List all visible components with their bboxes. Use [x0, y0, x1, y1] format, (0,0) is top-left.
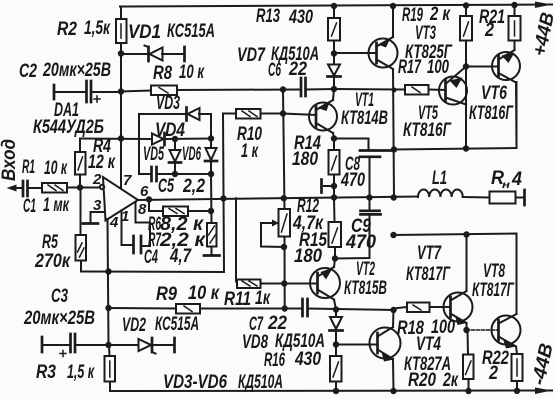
wire bias rail right to R17 [334, 88, 405, 91]
node junction output/R14-R15 [331, 194, 337, 200]
node junction output/R6 [146, 196, 152, 202]
diode VD2 zener KS515A [109, 344, 139, 346]
resistor R4 [75, 152, 86, 175]
resistor R20 [467, 330, 470, 355]
wire R8 to C6 [177, 89, 301, 92]
svg-text:VT8: VT8 [483, 261, 505, 282]
svg-text:КТ816Г: КТ816Г [403, 120, 452, 141]
node junction rail/VT2 emitter/VD8 [333, 306, 339, 312]
svg-text:100: 100 [427, 57, 449, 78]
svg-text:КТ817Г: КТ817Г [406, 264, 451, 285]
diode VD4 [152, 134, 164, 145]
node junction VD1 tap [118, 50, 124, 56]
svg-text:VT6: VT6 [481, 83, 507, 104]
resistor R18 [394, 307, 408, 309]
resistor R10 [236, 109, 261, 119]
svg-text:VT4: VT4 [416, 334, 441, 355]
svg-text:С2: С2 [19, 61, 37, 82]
resistor R9 [176, 304, 200, 314]
wire VT7/VT8 collector rail [394, 234, 517, 315]
wire R4 top to diode block [80, 138, 152, 141]
node junction R12 wiper return [281, 244, 287, 250]
resistor R22 [512, 354, 523, 381]
svg-text:С3: С3 [51, 286, 68, 307]
node junction top rail at R19 [463, 2, 469, 8]
terminal +44V arrow [535, 2, 552, 9]
svg-text:VD5: VD5 [143, 144, 164, 165]
svg-text:R13: R13 [256, 6, 280, 27]
node junction output rail mid-right [390, 232, 396, 238]
resistor R16 [335, 345, 337, 357]
resistor R15 [329, 222, 342, 247]
svg-text:С5: С5 [158, 176, 174, 197]
svg-text:1: 1 [121, 208, 129, 225]
node junction rail/VT3 line [391, 146, 397, 152]
resistor R6 [149, 200, 163, 212]
svg-text:2к: 2к [442, 370, 459, 391]
op-amp DA1 K544UD2B [103, 177, 138, 221]
transistor VT5 KT816G [439, 77, 467, 105]
svg-text:3: 3 [93, 197, 102, 214]
node junction C3/VD2/R3 [105, 342, 111, 348]
svg-text:10 к: 10 к [188, 283, 220, 304]
wire VT6 base [466, 66, 499, 68]
wire x283 vertical [283, 90, 285, 210]
pin 1 wire [122, 211, 134, 246]
svg-text:VT3: VT3 [415, 23, 436, 44]
wire VT8 base [467, 329, 499, 331]
svg-text:430: 430 [288, 7, 313, 28]
wire x284 line to VT2 base [284, 237, 286, 309]
svg-text:4,7: 4,7 [169, 246, 192, 267]
svg-text:22: 22 [288, 59, 307, 80]
diode VD5 [174, 139, 176, 150]
svg-text:2: 2 [92, 171, 102, 188]
svg-text:R2: R2 [57, 19, 77, 40]
pin 3 stub and common [91, 212, 105, 223]
node junction output/C8-C9 [366, 194, 372, 200]
diode block left edge wire [138, 114, 140, 174]
node junction VT5 emitter / VT6 base [463, 63, 469, 69]
node junction C2/R8 [118, 88, 124, 94]
resistor R14 [333, 139, 335, 151]
transistor VT4 KT827A [336, 344, 378, 346]
svg-text:VD1: VD1 [128, 22, 161, 43]
node junction rail/x284 line [282, 305, 288, 311]
svg-text:R9: R9 [156, 284, 177, 305]
svg-text:8: 8 [138, 201, 147, 218]
wire R2 to C2 junction [120, 43, 122, 92]
node junction output/VT345 line [391, 194, 397, 200]
svg-text:КС515А: КС515А [155, 314, 199, 335]
svg-text:К544УД2Б: К544УД2Б [33, 117, 104, 138]
capacitor C4 [132, 236, 135, 253]
svg-text:VT7: VT7 [417, 243, 442, 264]
transistor VT3 KT825G [369, 39, 398, 68]
resistor R3 [108, 345, 111, 356]
svg-text:2 к: 2 к [429, 4, 451, 25]
svg-text:R5: R5 [42, 232, 58, 253]
diode VD1 zener KS515A [147, 47, 150, 61]
terminal output bar [523, 190, 526, 205]
terminal -44V arrow [535, 388, 552, 395]
svg-text:10 к: 10 к [179, 62, 205, 83]
node junction VD4/VD5 [172, 136, 178, 142]
inductor L1 [418, 189, 463, 197]
resistor R1 [42, 183, 67, 193]
svg-text:180: 180 [294, 246, 322, 267]
svg-text:VD4: VD4 [155, 120, 185, 141]
capacitor C1 [22, 181, 25, 196]
wire feedback rail [81, 271, 224, 274]
terminal input arrow [7, 185, 17, 192]
svg-text:270к: 270к [34, 251, 71, 272]
node junction x283 top [280, 86, 286, 92]
node junction R10/VT1 base [280, 110, 286, 116]
capacitor C6 [300, 78, 303, 96]
svg-text:20мк×25В: 20мк×25В [42, 60, 111, 81]
svg-text:VD7: VD7 [237, 45, 266, 66]
node junction VD8/R16/VT4 base [333, 341, 339, 347]
node junction input/R4/R5/pin2 [77, 184, 83, 190]
svg-text:12 к: 12 к [88, 152, 116, 173]
svg-text:20мк×25В: 20мк×25В [23, 308, 95, 329]
wire bottom -44V rail [110, 390, 552, 393]
svg-text:С4: С4 [144, 247, 158, 268]
capacitor C2 [53, 85, 56, 99]
wire VD1 branch [121, 53, 148, 55]
svg-text:С1: С1 [23, 196, 36, 217]
wire VT3 base [334, 52, 377, 54]
svg-text:4: 4 [511, 169, 522, 190]
resistor R5 [76, 235, 87, 261]
diode VD3 [139, 113, 186, 115]
svg-text:VD2: VD2 [122, 315, 146, 336]
node junction top rail at R21 [511, 2, 517, 8]
wire top +44V rail [120, 5, 552, 7]
node junction R14 bottom stub [331, 183, 337, 189]
svg-text:КТ815В: КТ815В [344, 278, 387, 299]
svg-text:470: 470 [345, 232, 376, 253]
svg-text:КТ814В: КТ814В [341, 108, 388, 129]
node junction pin7/diode block wire [118, 135, 124, 141]
node junction bottom rail VT4 emitter [390, 388, 396, 394]
svg-text:VD3-VD6: VD3-VD6 [163, 372, 227, 393]
capacitor C5 [139, 173, 152, 175]
node junction VD7 bottom / VT1 emitter [331, 86, 337, 92]
diode VD7 KD510A [328, 65, 340, 76]
svg-text:7: 7 [123, 172, 132, 189]
resistor R7 [207, 223, 217, 247]
svg-text:R17: R17 [398, 57, 422, 78]
capacitor C3 [41, 337, 44, 352]
svg-text:2: 2 [484, 20, 494, 41]
node junction output rail x283 [281, 195, 287, 201]
svg-text:1к: 1к [255, 288, 271, 309]
node junction feedback/pin4 line [105, 268, 111, 274]
svg-text:L1: L1 [432, 168, 447, 189]
node junction rail/R19 line [463, 145, 469, 151]
wire emitter rail top half [394, 82, 517, 150]
capacitor C9 [369, 198, 371, 211]
node junction VD5 bottom [172, 171, 178, 177]
svg-text:VT2: VT2 [356, 259, 375, 280]
svg-text:1,5к: 1,5к [84, 18, 111, 39]
svg-text:2,2: 2,2 [182, 176, 205, 197]
node junction at VT3 collector line [392, 88, 397, 93]
svg-text:4: 4 [109, 214, 119, 231]
svg-text:R8: R8 [153, 63, 172, 84]
node junction output rail / R10 left line [220, 195, 226, 201]
diode VD6 [206, 148, 217, 160]
svg-text:6: 6 [140, 183, 149, 200]
transistor VT6 KT816G [492, 52, 520, 80]
wire VD6 line down to R7 [210, 174, 213, 223]
svg-text:430: 430 [294, 349, 321, 370]
svg-text:VD6: VD6 [182, 144, 201, 165]
node junction VT1 collector / C8 branch [331, 135, 337, 141]
resistor R21 [509, 16, 521, 41]
transistor VT8 KT817G [492, 316, 521, 345]
svg-text:С6: С6 [268, 60, 281, 81]
svg-text:1 мк: 1 мк [43, 195, 70, 216]
svg-text:470: 470 [340, 170, 365, 191]
capacitor stub at R14 bottom [324, 185, 334, 187]
node junction VT7 collector [463, 231, 469, 237]
svg-text:н: н [502, 180, 510, 191]
node junction VT7 emitter/R20/VT8 base [463, 327, 469, 333]
resistor Rn load [490, 192, 516, 204]
resistor R17 [405, 85, 429, 95]
resistor R13 [333, 6, 335, 18]
wire lower mid rail [109, 307, 177, 310]
node junction bottom rail R22 [514, 388, 520, 394]
svg-text:10 к: 10 к [44, 158, 68, 179]
resistor R11 [236, 198, 237, 283]
node junction VD6 bottom [208, 171, 214, 177]
pin 7 wire [120, 92, 122, 189]
node junction R6/R7 [208, 208, 214, 214]
svg-text:КС515А: КС515А [167, 21, 215, 42]
node junction R15/C9/VT2 collector [332, 255, 338, 261]
node junction bottom rail R16 [333, 388, 339, 394]
capacitor C8 [334, 139, 369, 151]
svg-text:R3: R3 [36, 362, 56, 383]
transistor VT7 KT817G [444, 293, 473, 322]
node junction R11/VT2 base [281, 280, 287, 286]
transistor VT2 KT815V [284, 283, 317, 285]
wire bias rail left [121, 91, 151, 92]
svg-text:R20: R20 [408, 370, 436, 391]
transistor VT1 KT814V [283, 114, 316, 116]
ground common symbol R7 [211, 247, 213, 256]
node junction top rail at R13 [331, 3, 337, 9]
wire R10 left line [223, 113, 236, 115]
resistor R2 [120, 7, 122, 20]
pin 8 wire [136, 202, 151, 246]
svg-text:КТ816Г: КТ816Г [469, 103, 514, 124]
diode VD8 [335, 310, 337, 317]
resistor R8 [151, 86, 177, 96]
svg-text:КТ817Г: КТ817Г [472, 280, 515, 301]
svg-text:1 к: 1 к [241, 141, 259, 162]
node junction VD4/VD6 [208, 135, 214, 141]
node junction R13/VD7/VT3 base [331, 50, 337, 56]
wire L1 to Rn [463, 196, 490, 199]
svg-text:180: 180 [292, 149, 318, 170]
pin 2 open circle [100, 185, 104, 189]
svg-text:1,5 к: 1,5 к [67, 362, 95, 383]
node junction top rail at VT3 [390, 3, 396, 9]
resistor R19 [465, 6, 467, 17]
node junction pin4 line / lower rail [105, 305, 111, 311]
node junction bottom rail R20 [465, 388, 471, 394]
svg-text:R11: R11 [224, 289, 251, 310]
svg-text:Вход: Вход [0, 139, 20, 181]
svg-text:VD3: VD3 [156, 93, 180, 114]
svg-text:R1: R1 [22, 157, 35, 178]
wire output from pin 6 [138, 197, 418, 201]
node junction rail/VT4 collector/R18 [390, 307, 396, 313]
capacitor C7 [301, 299, 304, 316]
svg-text:КД510А: КД510А [238, 372, 283, 393]
svg-text:2: 2 [488, 363, 498, 384]
trimmer R12 [279, 209, 291, 237]
pin 4 wire [108, 219, 109, 345]
svg-text:R16: R16 [264, 350, 285, 371]
